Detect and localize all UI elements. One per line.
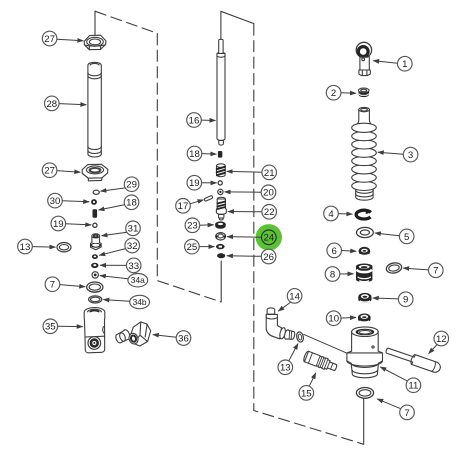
svg-text:17: 17 [178,201,189,212]
part 8 packing stack [356,264,373,283]
balloon 7 left [45,277,60,292]
balloon 18 left [124,195,139,210]
leader 8 [340,273,354,275]
svg-text:6: 6 [332,246,337,257]
leader 7 bottom [377,399,401,409]
leader 18 middle [202,153,217,156]
balloon 2 [326,85,341,100]
part 32 washer [92,254,98,259]
part 29 retaining ring [93,190,99,194]
svg-text:15: 15 [301,388,312,399]
balloon 16 [187,113,202,128]
leader 13 right [289,344,298,361]
balloon 28 [45,96,60,111]
balloon 7 right [429,263,444,278]
part 25 packing washer [216,244,225,249]
balloon 30 [48,193,63,208]
part 18 spring pin (middle) [218,151,222,158]
svg-text:20: 20 [263,188,274,199]
svg-text:7: 7 [50,280,55,291]
balloon 14 [287,289,302,304]
svg-text:13: 13 [280,363,291,374]
part 16 piston rod [217,39,225,145]
svg-text:3: 3 [408,150,413,161]
leader 24 [227,236,262,239]
svg-text:11: 11 [408,381,418,392]
balloon 19 middle [187,175,202,190]
leader 18 left [99,205,125,210]
leader 34b [103,300,130,302]
part 3 spring boot [352,107,377,200]
leader 30 [62,201,89,202]
balloon 15 [299,386,314,401]
leader 28 [59,104,86,105]
leader 34a [100,276,128,279]
svg-text:7: 7 [404,408,409,419]
balloon 17 [176,199,191,214]
svg-text:24: 24 [263,233,274,244]
part 13 o-ring (left) [57,243,71,252]
balloon 31 [126,221,141,236]
part 10 gland washer [358,314,371,323]
svg-text:21: 21 [264,168,275,179]
leader 25 [199,246,214,248]
part 5 washer [357,227,374,237]
svg-text:32: 32 [127,241,138,252]
svg-text:22: 22 [264,207,275,218]
part 34a washer [92,272,98,278]
balloon 24 [262,230,277,245]
leader 11 [380,367,407,381]
part 36 angle fitting [116,322,151,346]
balloon 11 [406,378,421,393]
balloon 1 [398,56,413,71]
part 18 spring pin (left) [93,209,98,218]
part 7 o-ring (left) [87,282,103,292]
leader 6 [342,250,357,253]
part 14 elbow fitting [266,308,295,340]
leader 15 [309,373,316,386]
balloon 36 [176,331,191,346]
svg-text:16: 16 [189,115,200,126]
balloon 4 [324,206,339,221]
balloon 10 [326,311,341,326]
leader 14 [278,302,290,311]
svg-text:9: 9 [403,295,408,306]
leader 31 [102,232,127,236]
balloon 12 [434,331,449,346]
svg-text:27: 27 [44,34,55,45]
part 27 hex flange nut (bottom) [82,164,108,181]
svg-text:19: 19 [53,219,64,230]
part 4 retaining ring [356,210,371,219]
svg-text:27: 27 [44,166,55,177]
svg-text:19: 19 [189,178,200,189]
svg-text:34a: 34a [131,275,145,285]
svg-text:2: 2 [331,88,336,99]
balloon 9 [398,292,413,307]
svg-text:14: 14 [289,291,300,302]
leader 35 [58,325,83,327]
balloon 13 right [278,360,293,375]
leader 4 [338,213,352,216]
svg-text:33: 33 [128,261,139,272]
part 17 roll pin [204,195,213,201]
part 19 ball (left) [93,223,97,227]
balloon 19 left [51,216,66,231]
balloon 26 [261,249,276,264]
part 20 washer (middle) [218,189,223,194]
part 9 bearing [358,293,371,303]
balloon 23 [185,218,200,233]
part 7 o-ring (right) [386,262,403,275]
svg-text:25: 25 [187,242,198,253]
balloon 25 [185,239,200,254]
part 24 bearing (highlighted) [216,233,226,240]
part 1 rod end [356,42,371,75]
part 13 o-ring (right) [296,331,305,342]
wire axis line from o-ring 13 to part 11 [304,334,352,355]
part 19 ball (middle) [218,181,222,185]
leader 20 [225,191,262,193]
svg-text:4: 4 [328,209,334,220]
part 27 hex nut (top) [84,35,106,50]
balloon 7 bottom [400,405,415,420]
part 31 valve seat [90,234,101,250]
leader 22 [228,211,262,213]
svg-text:34b: 34b [133,297,147,307]
part 2 jam nut [358,88,369,97]
leader 17 [190,200,204,204]
svg-text:29: 29 [126,180,137,191]
leader 2 [341,92,356,95]
svg-text:12: 12 [436,334,447,345]
part 30 seal [91,199,97,205]
leader 5 [375,233,400,236]
part 33 packing [91,263,98,268]
part 22 valve stem [216,197,226,220]
balloon 34a [128,274,148,287]
balloon 8 [325,267,340,282]
leader 16 [201,119,215,121]
svg-text:26: 26 [263,252,274,263]
svg-text:5: 5 [404,232,409,243]
balloon 21 [262,165,277,180]
balloon 27 bottom [42,163,57,178]
part 6 u-cup seal [359,247,371,256]
balloon 6 [327,243,342,258]
leader 29 [101,188,126,191]
svg-text:36: 36 [178,333,189,344]
highlight 24 [256,224,282,250]
balloon 29 [124,177,139,192]
leader 7 left [60,285,85,287]
svg-text:31: 31 [128,224,139,235]
svg-text:10: 10 [328,314,339,325]
part 23 packing nut [215,221,226,228]
leader 13 left [32,246,55,249]
leader 26 [227,255,261,257]
svg-text:7: 7 [433,266,438,277]
part 34b backup ring [89,296,102,303]
svg-text:35: 35 [45,322,56,333]
leader 27 top [57,39,83,40]
leader 23 [200,224,214,226]
balloon 32 [125,238,140,253]
part 12 handle [385,345,442,373]
balloon 27 top [42,31,57,46]
balloon 18 middle [187,146,202,161]
leader 32 [99,249,125,256]
svg-text:8: 8 [330,269,335,280]
part 21 spring [217,164,226,177]
leader 9 [373,297,399,300]
leader 27 bottom [57,171,80,173]
part 35 valve body [84,308,105,353]
balloon 33 [126,258,141,273]
balloon 13 left [18,239,33,254]
boundary left polyline [95,11,221,302]
balloon 5 [399,229,414,244]
svg-text:18: 18 [189,149,200,160]
svg-text:18: 18 [126,198,137,209]
svg-text:1: 1 [402,59,407,70]
svg-text:28: 28 [46,99,57,110]
leader 19 middle [202,182,217,184]
leader 36 [153,335,176,338]
part 28 tube [88,62,101,157]
balloon 35 [43,319,58,334]
leader 33 [100,264,126,266]
leader 19 left [66,224,92,225]
part 11 cylinder body [347,327,383,378]
leader 3 [378,152,404,154]
svg-text:30: 30 [50,196,61,207]
svg-text:23: 23 [187,221,198,232]
balloon 20 [261,185,276,200]
part 26 seal washer [217,253,226,258]
balloon 3 [403,147,418,162]
part 15 coupler [303,351,338,374]
leader 10 [341,316,356,319]
balloon 22 [262,205,277,220]
part 7 o-ring (bottom) [356,388,373,399]
svg-text:13: 13 [20,242,31,253]
leader 21 [227,170,262,173]
balloon 34b [130,295,150,308]
leader 1 [373,61,397,64]
leader 12 [429,345,438,354]
boundary right polyline [221,11,364,444]
leader 7 right [403,268,428,270]
wire from part 26 down to boundary [220,261,222,302]
